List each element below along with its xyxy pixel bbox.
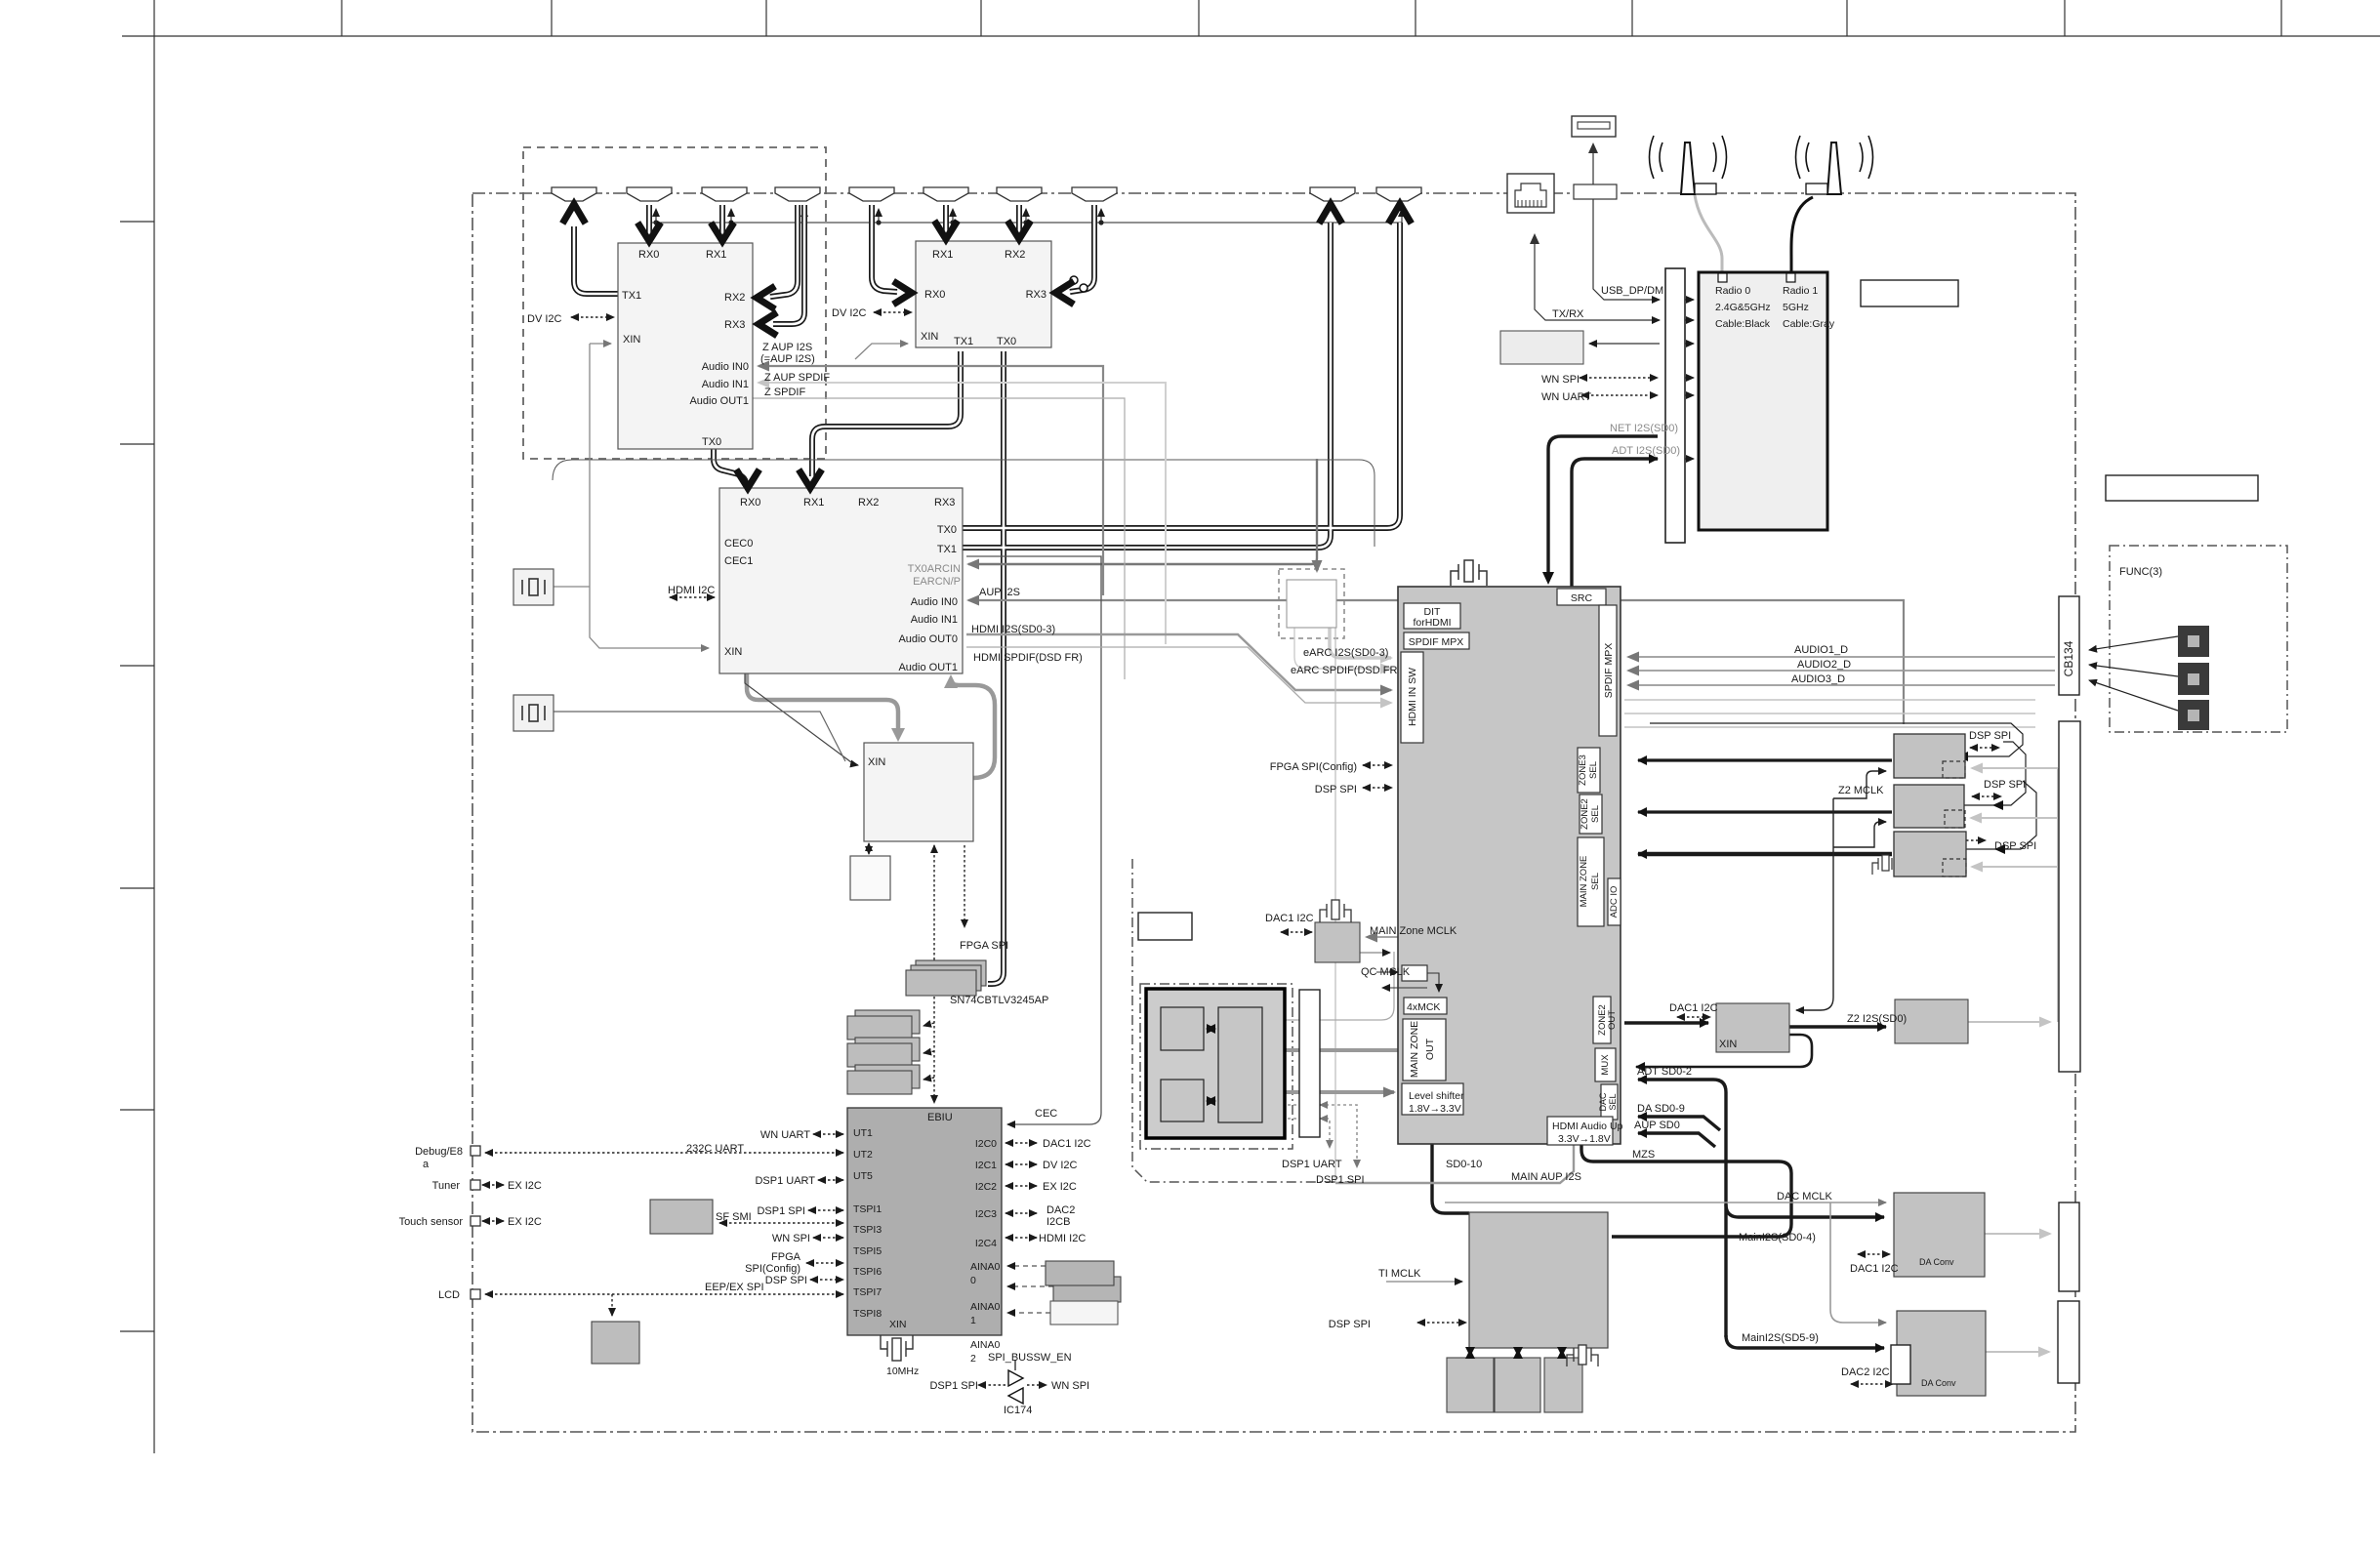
svg-text:ADT I2S(SD0): ADT I2S(SD0): [1612, 445, 1680, 457]
svg-text:AINA0: AINA0: [970, 1339, 1001, 1351]
svg-text:DAC1 I2C: DAC1 I2C: [1043, 1138, 1091, 1150]
svg-text:Radio 0: Radio 0: [1715, 285, 1750, 297]
svg-text:I2C3: I2C3: [975, 1208, 997, 1220]
svg-text:WN SPI: WN SPI: [1541, 374, 1580, 386]
svg-text:UT1: UT1: [853, 1127, 873, 1139]
svg-text:TX1: TX1: [937, 544, 957, 555]
svg-text:TSPI1: TSPI1: [853, 1203, 882, 1215]
svg-text:QC MCLK: QC MCLK: [1361, 966, 1411, 978]
svg-text:SPDIF MPX: SPDIF MPX: [1603, 643, 1615, 699]
svg-text:(=AUP I2S): (=AUP I2S): [760, 353, 815, 365]
svg-text:I2C0: I2C0: [975, 1138, 997, 1150]
svg-text:DSP SPI: DSP SPI: [1329, 1319, 1371, 1330]
svg-text:EX I2C: EX I2C: [508, 1180, 542, 1192]
svg-text:DAC2: DAC2: [1046, 1204, 1075, 1216]
svg-text:DSP SPI: DSP SPI: [765, 1275, 807, 1286]
svg-text:Debug/E8: Debug/E8: [415, 1146, 463, 1158]
svg-text:Audio IN1: Audio IN1: [702, 379, 749, 390]
svg-text:RX2: RX2: [724, 292, 745, 304]
svg-text:DAC1 I2C: DAC1 I2C: [1850, 1263, 1899, 1275]
svg-text:ZONE3: ZONE3: [1578, 754, 1588, 786]
svg-text:ADC IO: ADC IO: [1609, 886, 1620, 918]
svg-text:FUNC(3): FUNC(3): [2119, 566, 2162, 578]
svg-text:TX/RX: TX/RX: [1552, 308, 1584, 320]
svg-text:RX0: RX0: [740, 497, 760, 509]
svg-text:AINA0: AINA0: [970, 1301, 1001, 1313]
svg-text:MainI2S(SD0-4): MainI2S(SD0-4): [1739, 1232, 1816, 1243]
svg-text:Touch sensor: Touch sensor: [399, 1216, 464, 1228]
svg-text:RX3: RX3: [934, 497, 955, 509]
svg-text:DA SD0-9: DA SD0-9: [1637, 1103, 1685, 1115]
svg-text:4xMCK: 4xMCK: [1407, 1001, 1440, 1013]
svg-text:EX I2C: EX I2C: [1043, 1181, 1077, 1193]
svg-text:AUDIO3_D: AUDIO3_D: [1791, 673, 1845, 685]
svg-text:SPDIF MPX: SPDIF MPX: [1409, 636, 1464, 648]
svg-text:XIN: XIN: [623, 334, 640, 346]
svg-text:OUT: OUT: [1424, 1038, 1436, 1060]
svg-text:CEC0: CEC0: [724, 538, 753, 550]
svg-text:Z2 MCLK: Z2 MCLK: [1838, 785, 1884, 796]
svg-text:Level shifter: Level shifter: [1409, 1090, 1464, 1102]
svg-text:SRC: SRC: [1571, 592, 1593, 604]
svg-text:232C UART: 232C UART: [686, 1143, 744, 1155]
svg-text:DSP1 UART: DSP1 UART: [1282, 1159, 1342, 1170]
svg-text:Tuner: Tuner: [432, 1180, 461, 1192]
svg-text:MAIN AUP I2S: MAIN AUP I2S: [1511, 1171, 1581, 1183]
svg-text:DSP SPI: DSP SPI: [1984, 779, 2026, 791]
svg-text:RX1: RX1: [932, 249, 953, 261]
svg-text:AUDIO2_D: AUDIO2_D: [1797, 659, 1851, 671]
svg-text:XIN: XIN: [1719, 1039, 1737, 1050]
svg-text:WN UART: WN UART: [760, 1129, 810, 1141]
svg-text:EBIU: EBIU: [927, 1112, 953, 1123]
svg-text:ZONE2: ZONE2: [1580, 798, 1590, 830]
svg-text:I2C2: I2C2: [975, 1181, 997, 1193]
svg-text:RX0: RX0: [638, 249, 659, 261]
svg-text:DSP SPI: DSP SPI: [1969, 730, 2011, 742]
svg-text:DA Conv: DA Conv: [1919, 1257, 1954, 1267]
svg-text:HDMI IN SW: HDMI IN SW: [1407, 668, 1418, 726]
svg-text:XIN: XIN: [868, 756, 885, 768]
svg-text:Z AUP SPDIF: Z AUP SPDIF: [764, 372, 830, 384]
svg-text:TSPI6: TSPI6: [853, 1266, 882, 1278]
svg-text:0: 0: [970, 1275, 976, 1286]
svg-text:MUX: MUX: [1600, 1054, 1611, 1076]
svg-text:1.8V→3.3V: 1.8V→3.3V: [1409, 1103, 1461, 1115]
svg-text:XIN: XIN: [921, 331, 938, 343]
svg-text:AINA0: AINA0: [970, 1261, 1001, 1273]
svg-text:DV I2C: DV I2C: [1043, 1160, 1078, 1171]
svg-text:SD0-10: SD0-10: [1446, 1159, 1482, 1170]
svg-text:Audio OUT1: Audio OUT1: [898, 662, 958, 673]
svg-text:Audio OUT0: Audio OUT0: [898, 633, 958, 645]
svg-text:EX I2C: EX I2C: [508, 1216, 542, 1228]
svg-text:TSPI7: TSPI7: [853, 1286, 882, 1298]
svg-text:forHDMI: forHDMI: [1413, 617, 1451, 629]
svg-text:DSP1 SPI: DSP1 SPI: [929, 1380, 978, 1392]
svg-text:RX2: RX2: [1005, 249, 1025, 261]
svg-text:2: 2: [970, 1353, 976, 1365]
svg-text:DAC1 I2C: DAC1 I2C: [1265, 913, 1314, 924]
svg-text:AUDIO1_D: AUDIO1_D: [1794, 644, 1848, 656]
svg-text:TX0: TX0: [937, 524, 957, 536]
svg-text:MAIN Zone MCLK: MAIN Zone MCLK: [1370, 925, 1457, 937]
svg-text:1: 1: [970, 1315, 976, 1326]
svg-text:ADT SD0-2: ADT SD0-2: [1637, 1066, 1692, 1078]
svg-text:Cable:Black: Cable:Black: [1715, 318, 1771, 330]
svg-text:2.4G&5GHz: 2.4G&5GHz: [1715, 302, 1771, 313]
svg-text:SPI_BUSSW_EN: SPI_BUSSW_EN: [988, 1352, 1072, 1364]
svg-text:Audio OUT1: Audio OUT1: [689, 395, 749, 407]
svg-text:I2C1: I2C1: [975, 1160, 997, 1171]
svg-text:I2CB: I2CB: [1046, 1216, 1070, 1228]
svg-text:HDMI SPDIF(DSD FR): HDMI SPDIF(DSD FR): [973, 652, 1083, 664]
svg-text:WN SPI: WN SPI: [772, 1233, 810, 1244]
svg-text:DA Conv: DA Conv: [1921, 1378, 1956, 1388]
svg-text:FPGA: FPGA: [771, 1251, 801, 1263]
svg-text:IC174: IC174: [1004, 1405, 1032, 1416]
svg-text:TSPI3: TSPI3: [853, 1224, 882, 1236]
svg-text:Cable:Gray: Cable:Gray: [1783, 318, 1835, 330]
svg-text:DSP1 UART: DSP1 UART: [755, 1175, 815, 1187]
svg-text:SEL: SEL: [1588, 761, 1599, 779]
svg-text:SF SMI: SF SMI: [716, 1211, 752, 1223]
svg-text:Z SPDIF: Z SPDIF: [764, 387, 805, 398]
svg-text:Z2 I2S(SD0): Z2 I2S(SD0): [1847, 1013, 1907, 1025]
svg-text:RX0: RX0: [924, 289, 945, 301]
svg-text:FPGA SPI(Config): FPGA SPI(Config): [1270, 761, 1357, 773]
svg-text:FPGA SPI: FPGA SPI: [960, 940, 1008, 952]
svg-text:SEL: SEL: [1590, 805, 1601, 823]
svg-text:TSPI8: TSPI8: [853, 1308, 882, 1320]
svg-text:TX0ARCIN: TX0ARCIN: [908, 563, 961, 575]
svg-text:5GHz: 5GHz: [1783, 302, 1809, 313]
svg-text:AUP I2S: AUP I2S: [979, 587, 1020, 598]
svg-text:RX3: RX3: [724, 319, 745, 331]
svg-text:MZS: MZS: [1632, 1149, 1655, 1161]
svg-text:DAC2 I2C: DAC2 I2C: [1841, 1366, 1890, 1378]
svg-text:MAIN ZONE: MAIN ZONE: [1579, 856, 1589, 908]
svg-text:EARCN/P: EARCN/P: [913, 576, 961, 588]
svg-text:RX1: RX1: [803, 497, 824, 509]
svg-text:HDMI I2C: HDMI I2C: [668, 585, 715, 596]
svg-text:UT2: UT2: [853, 1149, 873, 1161]
svg-text:Audio IN1: Audio IN1: [911, 614, 958, 626]
svg-text:LCD: LCD: [438, 1289, 460, 1301]
svg-text:SEL: SEL: [1590, 873, 1601, 890]
svg-text:10MHz: 10MHz: [886, 1366, 919, 1377]
svg-text:Z AUP I2S: Z AUP I2S: [762, 342, 812, 353]
svg-text:CEC1: CEC1: [724, 555, 753, 567]
svg-text:AUP SD0: AUP SD0: [1634, 1120, 1680, 1131]
svg-text:3.3V→1.8V: 3.3V→1.8V: [1558, 1133, 1611, 1145]
svg-text:XIN: XIN: [724, 646, 742, 658]
svg-text:RX1: RX1: [706, 249, 726, 261]
svg-text:CB134: CB134: [2062, 640, 2075, 676]
svg-text:DSP1 SPI: DSP1 SPI: [757, 1205, 805, 1217]
svg-text:DAC1 I2C: DAC1 I2C: [1669, 1002, 1718, 1014]
svg-text:DAC MCLK: DAC MCLK: [1777, 1191, 1833, 1203]
svg-text:SN74CBTLV3245AP: SN74CBTLV3245AP: [950, 995, 1048, 1006]
svg-text:SPI(Config): SPI(Config): [745, 1263, 800, 1275]
svg-text:Radio 1: Radio 1: [1783, 285, 1818, 297]
svg-text:TX0: TX0: [997, 336, 1016, 347]
svg-text:MAIN ZONE: MAIN ZONE: [1409, 1021, 1420, 1078]
svg-text:EEP/EX SPI: EEP/EX SPI: [705, 1282, 764, 1293]
svg-text:NET I2S(SD0): NET I2S(SD0): [1610, 423, 1678, 434]
svg-text:I2C4: I2C4: [975, 1238, 997, 1249]
svg-text:XIN: XIN: [889, 1319, 907, 1330]
svg-text:DV I2C: DV I2C: [527, 313, 562, 325]
svg-text:RX3: RX3: [1026, 289, 1046, 301]
svg-text:TX1: TX1: [954, 336, 973, 347]
svg-text:HDMI I2C: HDMI I2C: [1039, 1233, 1086, 1244]
svg-text:MainI2S(SD5-9): MainI2S(SD5-9): [1742, 1332, 1819, 1344]
svg-text:a: a: [423, 1159, 430, 1170]
svg-text:DSP SPI: DSP SPI: [1994, 840, 2036, 852]
svg-text:DAC: DAC: [1598, 1092, 1608, 1112]
svg-text:SEL: SEL: [1608, 1093, 1618, 1110]
svg-text:TSPI5: TSPI5: [853, 1245, 882, 1257]
svg-text:RX2: RX2: [858, 497, 879, 509]
svg-text:USB_DP/DM: USB_DP/DM: [1601, 285, 1663, 297]
svg-text:DSP SPI: DSP SPI: [1315, 784, 1357, 795]
svg-text:Audio IN0: Audio IN0: [911, 596, 958, 608]
svg-text:WN UART: WN UART: [1541, 391, 1591, 403]
svg-text:TX0: TX0: [702, 436, 721, 448]
svg-text:TI MCLK: TI MCLK: [1378, 1268, 1421, 1280]
svg-text:CEC: CEC: [1035, 1108, 1057, 1120]
svg-text:HDMI I2S(SD0-3): HDMI I2S(SD0-3): [971, 624, 1055, 635]
svg-text:Audio IN0: Audio IN0: [702, 361, 749, 373]
svg-text:WN SPI: WN SPI: [1051, 1380, 1089, 1392]
svg-text:eARC I2S(SD0-3): eARC I2S(SD0-3): [1303, 647, 1388, 659]
svg-text:HDMI Audio Up: HDMI Audio Up: [1552, 1121, 1623, 1132]
svg-text:OUT: OUT: [1607, 1010, 1618, 1030]
svg-text:DV I2C: DV I2C: [832, 307, 867, 319]
svg-text:DSP1 SPI: DSP1 SPI: [1316, 1174, 1365, 1186]
svg-text:UT5: UT5: [853, 1170, 873, 1182]
svg-text:TX1: TX1: [622, 290, 641, 302]
svg-text:eARC SPDIF(DSD FR: eARC SPDIF(DSD FR: [1291, 665, 1397, 676]
